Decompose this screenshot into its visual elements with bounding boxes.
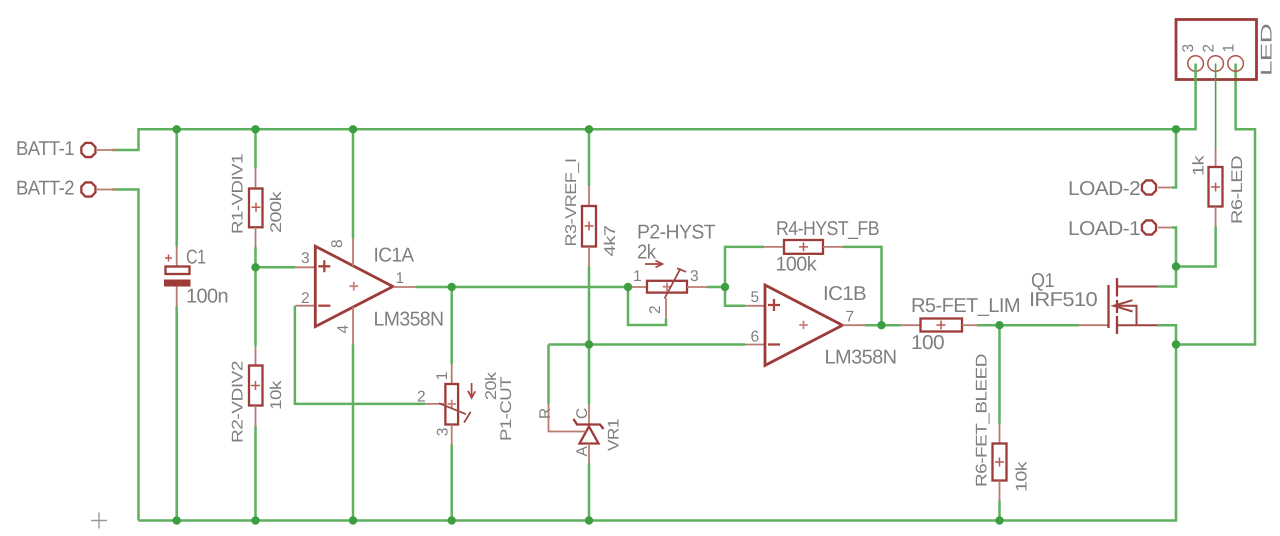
svg-text:1: 1	[395, 270, 403, 287]
junction top rail R3	[585, 125, 593, 133]
wire C1 branch	[175, 129, 178, 520]
junction top rail R1	[251, 125, 259, 133]
wire pin4 to bottom rail	[352, 344, 355, 520]
svg-text:1k: 1k	[1191, 155, 1208, 176]
node BATT-2 pin octagon	[81, 182, 117, 196]
svg-text:100k: 100k	[775, 254, 817, 276]
junction IC1A output	[448, 283, 456, 291]
wire bottom rail BATT-	[139, 345, 1177, 521]
junction bottom rail bleed	[995, 516, 1003, 524]
op-amp IC1A	[295, 239, 415, 345]
wire bleed branch	[998, 325, 1001, 423]
connector LED box	[1176, 20, 1257, 80]
junction bottom rail C1	[173, 516, 181, 524]
LED pin circle 3	[1188, 56, 1204, 72]
svg-text:R3-VREF_I: R3-VREF_I	[563, 159, 580, 247]
potentiometer P1-CUT	[425, 364, 475, 445]
junction source	[1172, 340, 1180, 348]
svg-text:BATT-2: BATT-2	[16, 178, 74, 200]
svg-text:R6-FET_BLEED: R6-FET_BLEED	[974, 354, 991, 487]
shunt reference VR1	[549, 405, 604, 464]
LED pin circle 1	[1228, 56, 1244, 72]
svg-text:7: 7	[845, 309, 853, 326]
junction bottom rail pin4	[349, 516, 357, 524]
junction bottom rail R2	[251, 516, 259, 524]
wire pin2 feedback	[295, 306, 426, 404]
wire bleed to bottom rail	[998, 501, 1001, 521]
junction IC1B output	[877, 321, 885, 329]
wire BATT-2 left drop	[112, 190, 139, 521]
resistor R4	[764, 240, 843, 254]
wire IC1B output	[865, 324, 901, 327]
junction P2 pin3	[721, 283, 729, 291]
resistor R6-LED	[1209, 148, 1223, 227]
svg-text:R: R	[537, 408, 554, 419]
svg-text:IC1B: IC1B	[823, 283, 866, 305]
potentiometer P2-HYST	[627, 261, 707, 319]
svg-text:C1: C1	[186, 247, 206, 269]
resistor R6-FET_BLEED	[993, 424, 1007, 501]
wire pin3 net	[256, 266, 296, 269]
svg-text:R2-VDIV2: R2-VDIV2	[230, 361, 247, 443]
wire R1 R2 branch	[254, 129, 257, 520]
junction divider pin3	[251, 263, 259, 271]
junction top rail pin8	[349, 125, 357, 133]
wire R5 to gate	[977, 324, 1079, 327]
svg-text:100: 100	[911, 332, 945, 354]
svg-text:P1-CUT: P1-CUT	[498, 376, 515, 441]
wire node to IC1B pin5	[725, 287, 745, 306]
svg-text:2: 2	[301, 290, 309, 307]
resistor R3	[582, 186, 596, 267]
wire VR1 ref loop	[547, 345, 550, 405]
node LOAD-1 pin octagon	[1142, 220, 1172, 234]
node LOAD-2 pin octagon	[1142, 180, 1172, 194]
svg-text:1: 1	[434, 372, 451, 380]
wire P1 bottom to rail	[450, 445, 453, 521]
svg-text:R5-FET_LIM: R5-FET_LIM	[911, 295, 1020, 317]
wire output to P1 top	[450, 287, 453, 364]
wire P2 jumper loop	[628, 287, 666, 325]
wire R6-LED bottom to drain node	[1176, 227, 1216, 267]
LED pin circle 2	[1208, 56, 1224, 72]
capacitor C1	[164, 247, 191, 307]
junction bottom rail VR1	[585, 516, 593, 524]
svg-text:R6-LED: R6-LED	[1229, 156, 1246, 224]
wire pin8 to rail	[352, 129, 355, 238]
svg-text:LM358N: LM358N	[824, 347, 896, 369]
origin cross marker	[91, 513, 107, 529]
svg-text:LM358N: LM358N	[373, 309, 443, 331]
svg-text:C: C	[574, 408, 591, 419]
svg-text:R1-VDIV1: R1-VDIV1	[230, 154, 247, 234]
wire LOAD-1 to drain node	[1172, 228, 1176, 267]
resistor R1	[249, 168, 263, 247]
junction top rail LOAD-2	[1172, 125, 1180, 133]
resistor R5	[901, 319, 978, 332]
svg-text:A: A	[574, 446, 591, 457]
wire LED pin3 to rail	[1176, 64, 1196, 130]
junction top rail C1	[173, 125, 181, 133]
svg-text:4: 4	[335, 325, 352, 334]
svg-text:4k7: 4k7	[602, 226, 619, 257]
svg-text:5: 5	[750, 289, 758, 306]
svg-text:IC1A: IC1A	[373, 245, 414, 267]
wire drain net	[1157, 267, 1176, 287]
op-amp IC1B	[745, 285, 865, 365]
svg-text:P2-HYST: P2-HYST	[637, 222, 715, 244]
junction gate bleed	[995, 321, 1003, 329]
svg-text:10k: 10k	[268, 380, 285, 410]
svg-text:1: 1	[1221, 44, 1238, 52]
svg-text:IRF510: IRF510	[1029, 289, 1098, 311]
svg-text:200k: 200k	[268, 191, 285, 233]
junction vref R3 VR1	[585, 340, 593, 348]
svg-text:R4-HYST_FB: R4-HYST_FB	[776, 218, 879, 240]
wire IC1A output net	[416, 286, 629, 289]
wire vref net to IC1B pin6	[549, 343, 746, 346]
node BATT-1 pin octagon	[81, 143, 117, 157]
svg-text:6: 6	[750, 329, 758, 346]
svg-text:3: 3	[1180, 44, 1197, 52]
svg-text:2k: 2k	[637, 242, 657, 264]
svg-text:VR1: VR1	[606, 419, 623, 451]
svg-text:BATT-1: BATT-1	[16, 138, 74, 160]
wire top rail BATT+	[112, 129, 1176, 150]
resistor R2	[249, 346, 263, 426]
svg-text:3: 3	[301, 250, 309, 267]
wire P2 pin3 to node	[707, 286, 725, 289]
svg-text:2: 2	[417, 389, 425, 406]
svg-text:3: 3	[435, 428, 452, 436]
svg-text:3: 3	[690, 268, 698, 285]
svg-text:1: 1	[633, 268, 641, 285]
junction drain LOAD-1	[1172, 262, 1180, 270]
svg-text:100n: 100n	[186, 286, 228, 308]
svg-text:2: 2	[647, 306, 664, 314]
svg-text:LOAD-1: LOAD-1	[1068, 218, 1141, 240]
junction bottom rail P1	[448, 516, 456, 524]
wire R3 branch	[588, 129, 591, 520]
svg-text:LOAD-2: LOAD-2	[1068, 178, 1141, 200]
wire R4 loop top	[725, 247, 764, 287]
svg-text:LED: LED	[1259, 24, 1276, 76]
svg-text:2: 2	[1201, 44, 1218, 52]
svg-text:8: 8	[329, 240, 346, 248]
wire source net	[1157, 325, 1176, 344]
wire R4 right to output	[843, 247, 882, 325]
wire source to LED pin1 riser	[1176, 64, 1255, 345]
wire LOAD-2 to rail	[1172, 129, 1176, 187]
svg-text:10k: 10k	[1014, 461, 1031, 492]
junction P2 pin1	[624, 283, 632, 291]
wire LED pin2 to R6-LED	[1215, 64, 1217, 149]
transistor Q1 IRF510	[1079, 278, 1158, 334]
